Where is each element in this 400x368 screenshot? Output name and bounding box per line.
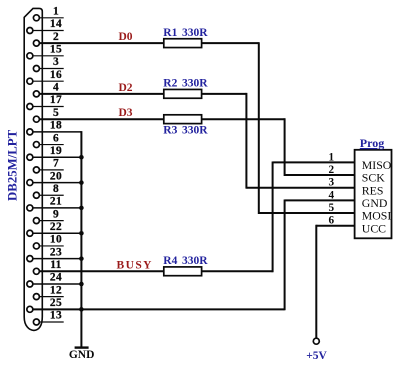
svg-text:9: 9: [53, 208, 59, 220]
svg-text:4: 4: [329, 189, 335, 201]
svg-text:11: 11: [50, 259, 62, 271]
svg-text:+5V: +5V: [306, 350, 327, 362]
svg-text:21: 21: [50, 196, 62, 208]
svg-text:17: 17: [50, 94, 62, 106]
svg-text:20: 20: [50, 170, 62, 182]
svg-text:D0: D0: [118, 31, 132, 43]
svg-text:13: 13: [50, 310, 62, 322]
svg-text:22: 22: [50, 221, 62, 233]
svg-text:15: 15: [50, 44, 62, 56]
svg-text:25: 25: [50, 297, 62, 309]
svg-text:6: 6: [53, 132, 59, 144]
svg-text:19: 19: [50, 145, 62, 157]
svg-text:Prog: Prog: [360, 136, 384, 150]
svg-text:1: 1: [329, 151, 335, 163]
svg-text:8: 8: [53, 183, 59, 195]
svg-text:2: 2: [329, 164, 335, 176]
svg-text:GND: GND: [69, 349, 95, 361]
svg-text:3: 3: [53, 56, 59, 68]
svg-text:3: 3: [329, 177, 335, 189]
svg-text:DB25M/LPT: DB25M/LPT: [5, 129, 19, 201]
svg-text:2: 2: [53, 31, 59, 43]
svg-text:10: 10: [50, 234, 62, 246]
svg-text:7: 7: [53, 158, 59, 170]
svg-text:16: 16: [50, 69, 62, 81]
svg-text:24: 24: [50, 272, 62, 284]
svg-text:23: 23: [50, 246, 62, 258]
svg-text:14: 14: [50, 18, 62, 30]
svg-text:R2330R: R2330R: [163, 78, 208, 90]
svg-text:R1330R: R1330R: [163, 27, 208, 39]
svg-text:D2: D2: [118, 82, 132, 94]
svg-text:6: 6: [329, 215, 335, 227]
svg-text:UCC: UCC: [362, 221, 386, 235]
svg-text:D3: D3: [118, 107, 132, 119]
svg-text:R3330R: R3330R: [163, 125, 208, 137]
svg-text:12: 12: [50, 284, 62, 296]
svg-text:18: 18: [50, 120, 62, 132]
svg-text:BUSY: BUSY: [117, 259, 153, 271]
svg-text:R4330R: R4330R: [163, 255, 208, 267]
svg-text:4: 4: [53, 82, 59, 94]
svg-text:5: 5: [53, 107, 59, 119]
svg-text:5: 5: [329, 202, 335, 214]
svg-text:1: 1: [53, 6, 59, 18]
